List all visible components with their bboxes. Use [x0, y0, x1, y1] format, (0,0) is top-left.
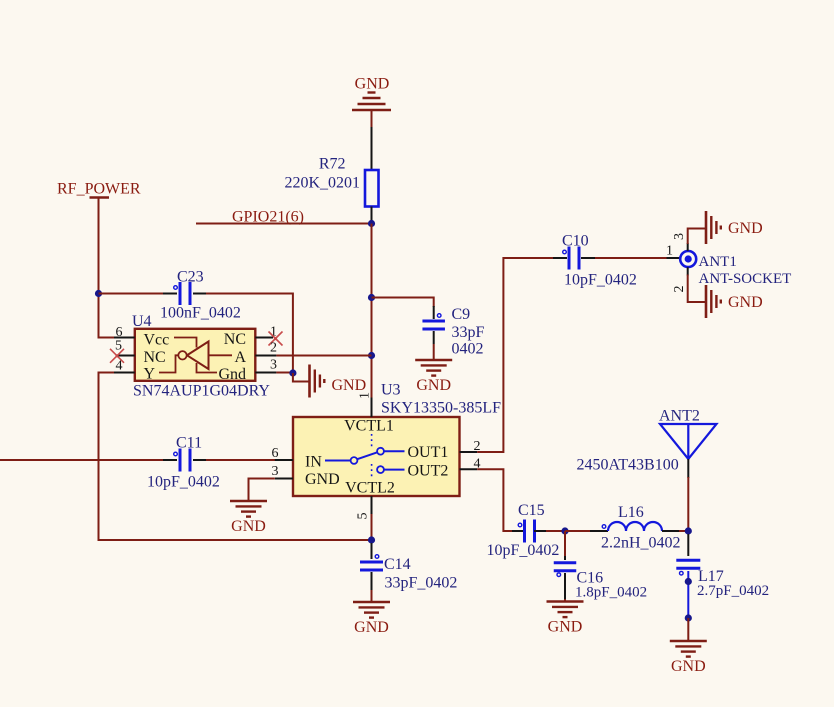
- svg-text:6: 6: [272, 446, 279, 461]
- svg-text:2.7pF_0402: 2.7pF_0402: [697, 583, 769, 599]
- pin ANT1.3: [687, 243, 689, 251]
- ground GND (U3 input): [230, 500, 267, 503]
- svg-text:U3: U3: [381, 382, 401, 399]
- svg-text:SKY13350-385LF: SKY13350-385LF: [381, 400, 501, 417]
- inductor L16 2.2nH_0402: [608, 522, 662, 531]
- svg-text:GND: GND: [728, 220, 763, 237]
- pin U3.3: [275, 478, 293, 480]
- pin ANT1.1: [667, 257, 681, 259]
- junction ANT2/L16/L17: [685, 527, 692, 534]
- wire GND to R72: [371, 110, 373, 127]
- svg-text:5: 5: [356, 513, 371, 520]
- svg-text:GND: GND: [332, 377, 367, 394]
- svg-text:OUT1: OUT1: [408, 444, 449, 461]
- junction U4.A branch: [368, 352, 375, 359]
- svg-text:1: 1: [666, 244, 673, 259]
- svg-text:Vcc: Vcc: [144, 332, 170, 349]
- pin U4.1 (NC): [255, 337, 273, 339]
- wire C16 to GND: [564, 599, 566, 602]
- wire C9 to GND: [433, 344, 435, 360]
- pin C23.2: [193, 293, 207, 295]
- svg-text:U4: U4: [132, 313, 152, 330]
- pin L17.1: [687, 534, 689, 556]
- wire Gnd to triangle: [197, 363, 218, 373]
- switch symbol U3: [325, 460, 351, 462]
- wire ANT1.2 to GND: [688, 275, 706, 303]
- svg-text:2.2nH_0402: 2.2nH_0402: [601, 535, 681, 552]
- inverter triangle U4: [187, 342, 209, 370]
- pin C16.2: [564, 573, 566, 600]
- svg-text:C23: C23: [177, 269, 204, 286]
- svg-text:C14: C14: [384, 556, 411, 573]
- svg-text:GND: GND: [231, 518, 266, 535]
- ground GND (L17): [670, 640, 707, 643]
- junction U4.Gnd / C23: [289, 369, 296, 376]
- svg-text:C15: C15: [518, 502, 545, 519]
- wire junction to GND symbol: [293, 373, 310, 382]
- wire C10 to ANT1: [595, 257, 667, 259]
- no-connect X pin5: [110, 349, 124, 363]
- wire RF_POWER to C23: [99, 293, 165, 295]
- svg-text:IN: IN: [305, 454, 322, 471]
- svg-text:RF_POWER: RF_POWER: [57, 181, 141, 198]
- pin C9.1: [433, 306, 435, 319]
- pin C9.2: [433, 331, 435, 344]
- wire ANT2 to junction: [687, 477, 689, 531]
- svg-text:ANT2: ANT2: [659, 408, 700, 425]
- svg-text:GND: GND: [548, 619, 583, 636]
- pin ANT1.2: [687, 267, 689, 275]
- ground GND (ANT1.3): [705, 211, 708, 244]
- capacitor C16 1.8pF_0402: [554, 561, 577, 564]
- wire net GPIO21(6): [196, 223, 372, 225]
- capacitor C14 33pF_0402: [360, 561, 383, 564]
- pin R72.2: [371, 207, 373, 224]
- junction VCTL2/C14: [368, 536, 375, 543]
- svg-text:NC: NC: [144, 349, 166, 366]
- svg-text:Gnd: Gnd: [218, 366, 246, 383]
- wire C23 to U4 Gnd: [206, 294, 293, 374]
- svg-text:R72: R72: [319, 156, 346, 173]
- svg-text:2450AT43B100: 2450AT43B100: [577, 457, 679, 474]
- ground GND (C9): [415, 359, 452, 362]
- svg-text:33pF: 33pF: [452, 324, 485, 341]
- svg-text:SN74AUP1G04DRY: SN74AUP1G04DRY: [133, 383, 270, 400]
- pin U4.4: [114, 372, 135, 374]
- ground GND (top, above R72): [352, 76, 391, 111]
- svg-text:C10: C10: [562, 233, 589, 250]
- svg-text:3: 3: [672, 233, 687, 240]
- junction GPIO/R72: [368, 220, 375, 227]
- svg-text:GND: GND: [728, 294, 763, 311]
- wire C14 to GND: [371, 590, 373, 602]
- svg-text:3: 3: [270, 358, 277, 373]
- svg-text:VCTL2: VCTL2: [345, 480, 395, 497]
- svg-text:C9: C9: [452, 306, 471, 323]
- pin R72.1: [371, 127, 373, 170]
- svg-text:GND: GND: [355, 76, 390, 93]
- pin U4.6: [114, 337, 135, 339]
- svg-text:2: 2: [270, 341, 277, 356]
- pin C15.2: [534, 530, 547, 532]
- wire Vcc to triangle: [174, 338, 197, 348]
- junction C15/L16/C16: [561, 527, 568, 534]
- svg-text:GPIO21(6): GPIO21(6): [232, 209, 304, 226]
- wire junction down to C16: [564, 531, 566, 557]
- svg-text:GND: GND: [354, 619, 389, 636]
- wire U4.Y to VCTL2/C14 row: [99, 373, 372, 541]
- svg-text:33pF_0402: 33pF_0402: [385, 575, 458, 592]
- wire U3.5 to C14: [371, 514, 373, 540]
- wire junction to L16: [565, 530, 591, 532]
- ground GND (C16): [547, 600, 584, 603]
- IC U3 SKY13350-385LF body: [293, 417, 460, 496]
- svg-text:10pF_0402: 10pF_0402: [487, 542, 560, 559]
- pin C16.1: [564, 556, 566, 560]
- pin U4.2: [255, 355, 276, 357]
- pin L16.2: [662, 530, 680, 532]
- svg-text:1: 1: [358, 392, 373, 399]
- pin C11.2: [193, 459, 207, 461]
- pin U4.5 (NC): [117, 355, 135, 357]
- capacitor C11 10pF_0402: [179, 449, 182, 472]
- capacitor C23 100nF_0402: [179, 282, 182, 305]
- dotted control line: [371, 434, 373, 448]
- pin C10.1: [553, 257, 567, 259]
- capacitor C10 10pF_0402: [568, 247, 571, 270]
- resistor R72: [365, 170, 379, 207]
- svg-text:100nF_0402: 100nF_0402: [160, 305, 241, 322]
- svg-text:OUT2: OUT2: [408, 463, 449, 480]
- ground GND (U4): [308, 365, 311, 398]
- wire RF input to C11: [0, 459, 164, 461]
- svg-text:C11: C11: [176, 435, 202, 452]
- wire L16 to ANT2 junction: [679, 530, 688, 532]
- wire ANT1.3 to GND: [688, 229, 706, 245]
- pin C14.2: [371, 572, 373, 590]
- wire A to triangle: [209, 354, 233, 356]
- pin U3.4: [460, 468, 478, 470]
- wire U3.GND to ground: [249, 479, 275, 502]
- pin C23.1: [163, 293, 177, 295]
- no-connect X pin1: [269, 332, 283, 346]
- svg-text:1.8pF_0402: 1.8pF_0402: [575, 585, 647, 601]
- svg-text:10pF_0402: 10pF_0402: [564, 272, 637, 289]
- svg-text:ANT1: ANT1: [699, 254, 737, 270]
- svg-text:GND: GND: [305, 471, 340, 488]
- capacitor C15 10pF_0402: [523, 520, 526, 543]
- pin U3.2: [460, 451, 478, 453]
- wire U4.A to main vertical: [276, 355, 371, 357]
- wire main vertical R72 to U3: [371, 224, 373, 398]
- svg-text:4: 4: [116, 359, 123, 374]
- pin ANT2.1: [687, 459, 689, 478]
- svg-text:NC: NC: [224, 331, 246, 348]
- svg-text:10pF_0402: 10pF_0402: [147, 474, 220, 491]
- svg-text:GND: GND: [671, 658, 706, 675]
- pin U3.1: [371, 398, 373, 418]
- wire L17 lower section: [687, 571, 689, 618]
- pin C15.1: [512, 530, 525, 532]
- wire RF_POWER down to U4.Vcc: [99, 198, 117, 338]
- wire U3.OUT1 to C10: [477, 258, 554, 452]
- svg-text:Y: Y: [144, 366, 156, 383]
- pin C11.1: [163, 459, 177, 461]
- pin C14.1: [371, 543, 373, 559]
- svg-text:VCTL1: VCTL1: [344, 418, 394, 435]
- component L17 2.7pF_0402: [676, 559, 700, 562]
- svg-text:2: 2: [672, 286, 687, 293]
- wire C11 to U3.IN: [206, 459, 275, 461]
- pin U4.3: [255, 372, 276, 374]
- wire U4.Gnd to junction: [276, 372, 293, 374]
- wire L17 to GND: [687, 618, 689, 640]
- svg-text:0402: 0402: [452, 341, 484, 358]
- svg-text:220K_0201: 220K_0201: [284, 175, 360, 192]
- pin L16.1: [590, 530, 608, 532]
- ground GND (C14): [353, 601, 390, 604]
- wire Y to bubble: [159, 355, 178, 372]
- svg-text:ANT-SOCKET: ANT-SOCKET: [699, 271, 792, 287]
- svg-text:GND: GND: [416, 377, 451, 394]
- wire to C9: [372, 298, 434, 308]
- ground GND (ANT1.2): [705, 285, 708, 318]
- wire C15 to junction: [546, 530, 565, 532]
- pin C10.2: [581, 257, 595, 259]
- capacitor C9 33pF 0402: [422, 320, 445, 323]
- pin U3.5: [371, 496, 373, 515]
- pin U3.6: [275, 459, 293, 461]
- svg-text:3: 3: [272, 464, 279, 479]
- junction RF_POWER / C23: [95, 290, 102, 297]
- junction C9 branch: [368, 294, 375, 301]
- svg-text:A: A: [234, 349, 246, 366]
- op-amp U4 SN74AUP1G04DRY body: [135, 329, 256, 381]
- svg-text:L16: L16: [618, 504, 644, 521]
- wire U3.OUT2 to C15: [477, 469, 513, 531]
